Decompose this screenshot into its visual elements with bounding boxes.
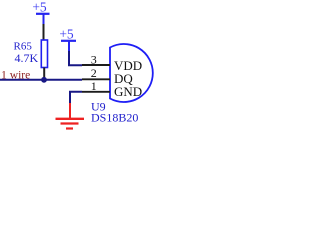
svg-text:DS18B20: DS18B20 <box>91 110 138 124</box>
svg-text:1: 1 <box>91 79 97 93</box>
svg-text:+5: +5 <box>32 0 47 15</box>
resistor R65 body <box>41 40 47 68</box>
resistor bottom pin <box>43 68 45 80</box>
power +5 (above pin 3) <box>59 27 76 51</box>
wire from +5 to resistor R65 top pin <box>43 24 45 41</box>
svg-text:GND: GND <box>114 84 142 99</box>
IC U9 DS18B20 body outline <box>110 44 153 102</box>
svg-text:3: 3 <box>91 52 97 66</box>
pin 3 <box>82 64 110 66</box>
wire from pin 1 to ground <box>70 92 82 104</box>
wire: 1 wire net to pin 2 <box>0 79 82 81</box>
svg-text:4.7K: 4.7K <box>15 51 39 65</box>
pin 2 <box>82 78 110 80</box>
ground <box>56 103 85 129</box>
wire from +5 to pin 3 <box>69 51 82 65</box>
power +5 (left, above R65) <box>32 0 49 24</box>
junction dot <box>41 77 47 83</box>
pin 1 <box>82 91 110 93</box>
svg-text:+5: +5 <box>59 27 74 42</box>
